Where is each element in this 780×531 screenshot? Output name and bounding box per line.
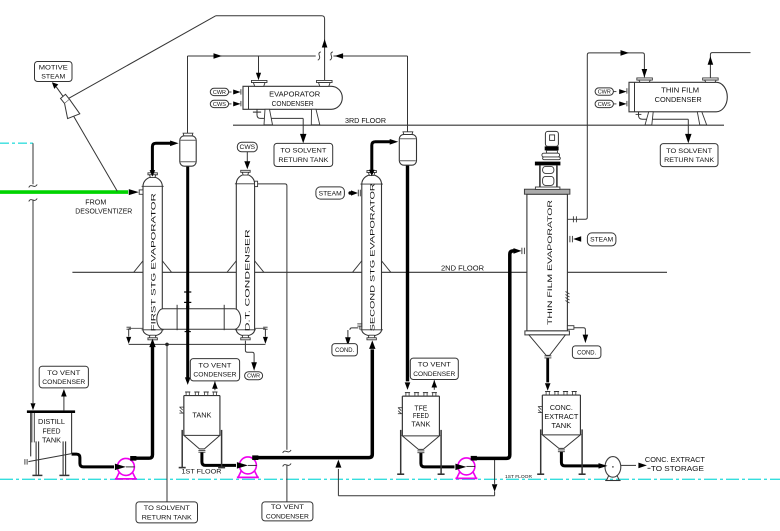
svg-text:TO SOLVENT: TO SOLVENT <box>280 148 326 155</box>
svg-text:2ND FLOOR: 2ND FLOOR <box>441 263 484 272</box>
svg-text:STEAM: STEAM <box>319 190 342 197</box>
svg-text:THIN FILM EVAPORATOR: THIN FILM EVAPORATOR <box>547 199 554 325</box>
svg-text:RETURN TANK: RETURN TANK <box>664 157 715 164</box>
svg-text:CWS: CWS <box>598 102 611 108</box>
svg-text:TANK: TANK <box>411 420 430 429</box>
svg-text:CWS: CWS <box>213 102 226 108</box>
svg-text:TANK: TANK <box>192 411 211 420</box>
svg-text:D.T. CONDENSER: D.T. CONDENSER <box>244 229 251 332</box>
svg-text:TO STORAGE: TO STORAGE <box>651 464 704 473</box>
svg-text:1ST FLOOR: 1ST FLOOR <box>182 469 222 476</box>
svg-text:TO VENT: TO VENT <box>418 362 451 369</box>
svg-text:CONC. EXTRACT: CONC. EXTRACT <box>645 455 705 464</box>
svg-text:CONDENSER: CONDENSER <box>413 371 455 378</box>
svg-text:CWS: CWS <box>240 144 256 151</box>
svg-text:FIRST STG EVAPORATOR: FIRST STG EVAPORATOR <box>150 193 157 332</box>
svg-text:SECOND STG EVAPORATOR: SECOND STG EVAPORATOR <box>369 183 376 332</box>
svg-text:COND.: COND. <box>577 349 596 356</box>
svg-text:RETURN TANK: RETURN TANK <box>142 514 193 521</box>
svg-text:RETURN TANK: RETURN TANK <box>278 157 329 164</box>
svg-text:TO VENT: TO VENT <box>47 370 80 377</box>
svg-text:CONDENSER: CONDENSER <box>266 513 309 520</box>
svg-text:COND.: COND. <box>335 347 354 354</box>
svg-text:TO VENT: TO VENT <box>198 363 231 370</box>
svg-text:CWR: CWR <box>213 90 226 96</box>
svg-text:EVAPORATOR: EVAPORATOR <box>269 90 320 99</box>
svg-text:TANK: TANK <box>42 435 61 444</box>
svg-text:EXTRACT: EXTRACT <box>544 412 578 421</box>
svg-text:FEED: FEED <box>43 427 61 436</box>
svg-text:CONDENSER: CONDENSER <box>272 99 314 108</box>
svg-text:STEAM: STEAM <box>590 237 613 244</box>
svg-text:TO SOLVENT: TO SOLVENT <box>144 505 190 512</box>
svg-text:CONC.: CONC. <box>550 403 573 412</box>
svg-text:CWR: CWR <box>598 89 611 95</box>
svg-text:1ST FLOOR: 1ST FLOOR <box>505 474 533 479</box>
svg-text:3RD FLOOR: 3RD FLOOR <box>345 116 386 125</box>
svg-text:FROM: FROM <box>85 200 106 207</box>
svg-text:MOTIVE: MOTIVE <box>39 64 69 71</box>
svg-text:TO SOLVENT: TO SOLVENT <box>666 148 712 155</box>
svg-text:CONDENSER: CONDENSER <box>655 95 702 104</box>
svg-text:THIN FILM: THIN FILM <box>661 86 699 95</box>
svg-text:TANK: TANK <box>551 421 571 430</box>
svg-text:TO VENT: TO VENT <box>271 504 304 511</box>
svg-text:CONDENSER: CONDENSER <box>193 372 236 379</box>
svg-text:STEAM: STEAM <box>41 73 65 80</box>
svg-text:CWR: CWR <box>247 374 260 380</box>
svg-text:DESOLVENTIZER: DESOLVENTIZER <box>75 209 132 216</box>
svg-text:CONDENSER: CONDENSER <box>42 379 85 386</box>
svg-text:DISTILL: DISTILL <box>38 417 65 426</box>
